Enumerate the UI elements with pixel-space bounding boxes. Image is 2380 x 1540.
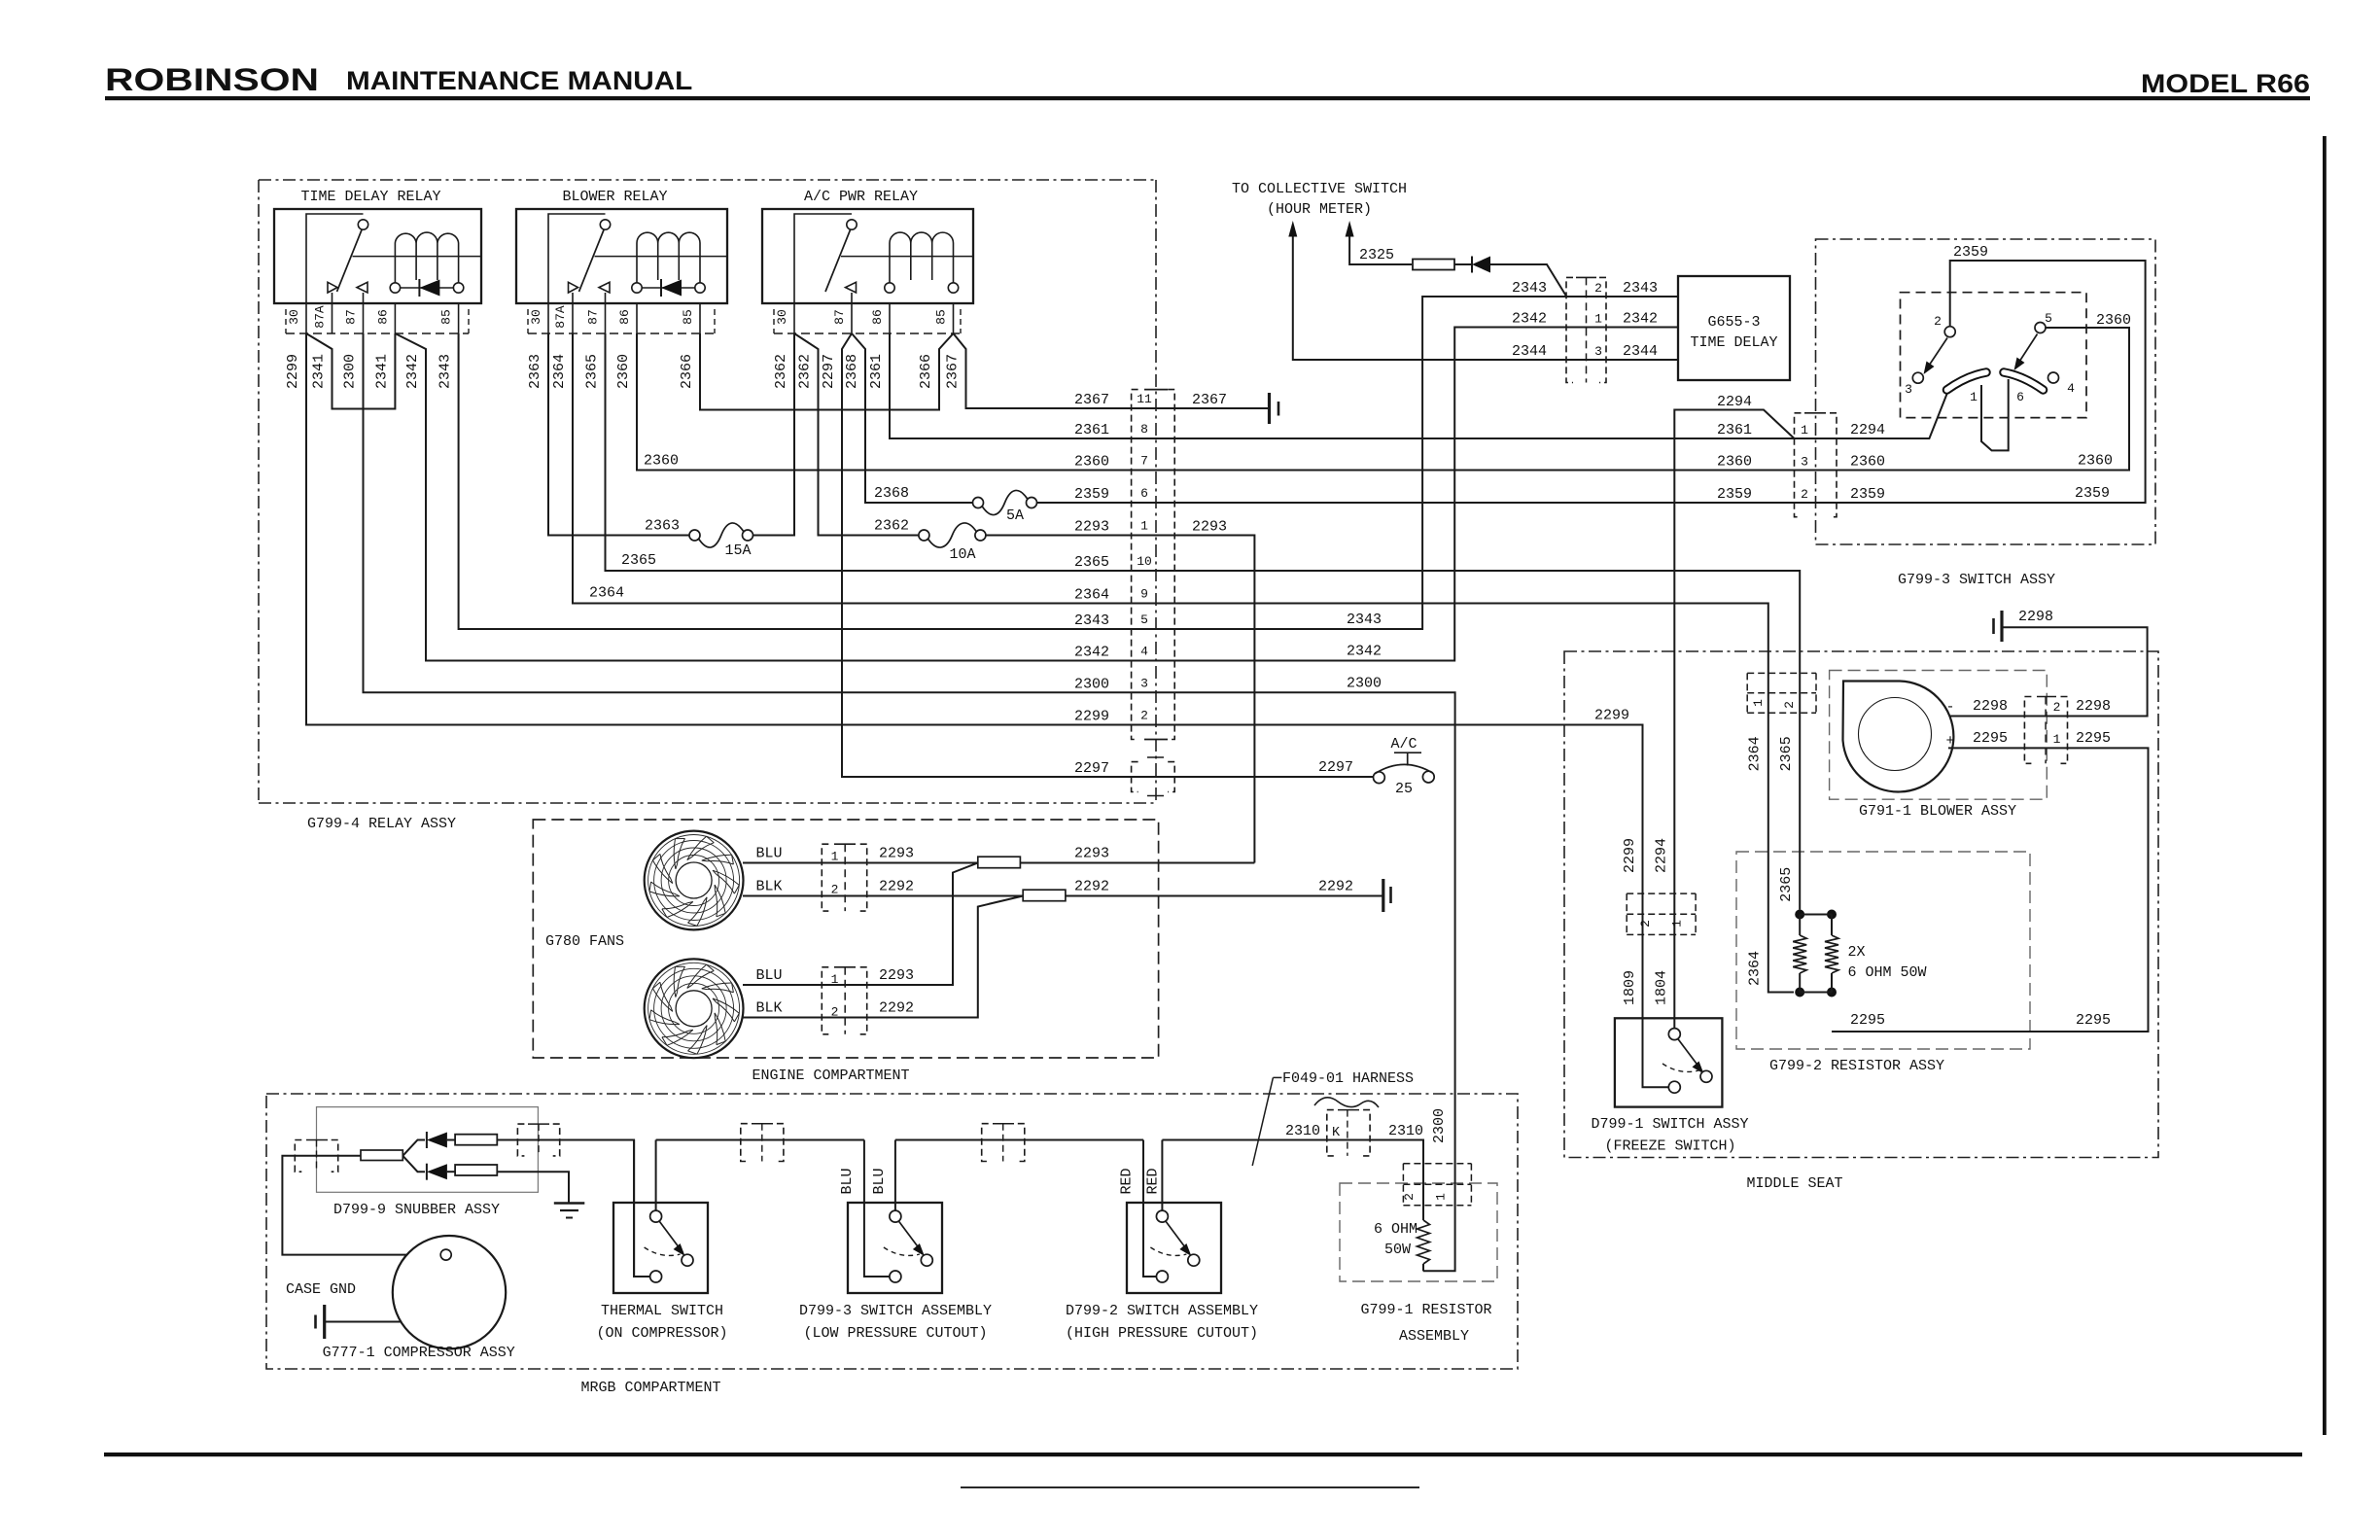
- svg-text:6 OHM 50W: 6 OHM 50W: [1848, 964, 1927, 981]
- svg-text:G799-2 RESISTOR ASSY: G799-2 RESISTOR ASSY: [1769, 1058, 1944, 1074]
- svg-text:2360: 2360: [1717, 454, 1752, 471]
- ground for wire 2292: [1382, 879, 1384, 912]
- svg-text:2292: 2292: [1318, 879, 1353, 895]
- middle seat connector on 2364/2365 (2 pin): [1747, 672, 1816, 674]
- svg-text:CASE GND: CASE GND: [286, 1281, 356, 1298]
- svg-text:3: 3: [1140, 676, 1148, 690]
- svg-text:MAINTENANCE MANUAL: MAINTENANCE MANUAL: [346, 66, 692, 95]
- svg-text:87: 87: [832, 309, 847, 325]
- svg-text:2365: 2365: [584, 354, 601, 389]
- relay 87 pin lead: [851, 293, 853, 303]
- relay coil terminal 85: [453, 283, 463, 293]
- freeze switch bottom terminal: [1668, 1081, 1680, 1093]
- svg-text:MRGB COMPARTMENT: MRGB COMPARTMENT: [580, 1380, 720, 1396]
- svg-text:2343: 2343: [1074, 612, 1109, 629]
- svg-text:TO COLLECTIVE SWITCH: TO COLLECTIVE SWITCH: [1232, 181, 1407, 197]
- G799-4 RELAY ASSY dashed box: [259, 180, 1156, 803]
- svg-text:2359: 2359: [1953, 244, 1988, 261]
- wire 2310 trunk: snubber to thermal switch: [497, 1140, 649, 1277]
- svg-text:2299: 2299: [1074, 709, 1109, 725]
- svg-text:ASSEMBLY: ASSEMBLY: [1399, 1328, 1469, 1345]
- svg-text:2310: 2310: [1388, 1123, 1423, 1139]
- relay pin stubs: [305, 303, 307, 333]
- svg-text:2342: 2342: [1074, 645, 1109, 661]
- svg-text:1809: 1809: [1622, 970, 1638, 1005]
- svg-text:G777-1 COMPRESSOR ASSY: G777-1 COMPRESSOR ASSY: [323, 1345, 515, 1361]
- svg-text:2293: 2293: [1074, 519, 1109, 536]
- relay connector dashed pin row: [286, 332, 469, 334]
- svg-text:2: 2: [1801, 487, 1808, 502]
- svg-text:2343: 2343: [1347, 612, 1382, 628]
- svg-text:25: 25: [1395, 781, 1413, 797]
- svg-text:TIME DELAY RELAY: TIME DELAY RELAY: [300, 189, 440, 205]
- thermal switch arm with arrow: [659, 1221, 681, 1250]
- D799-3 low pressure switch top terminal: [890, 1210, 901, 1222]
- svg-text:2294: 2294: [1717, 394, 1752, 410]
- svg-text:ROBINSON: ROBINSON: [105, 62, 319, 97]
- relay suppression diode: [642, 287, 695, 289]
- thermal switch dashed arc: [645, 1247, 681, 1255]
- svg-text:RED: RED: [1145, 1168, 1162, 1194]
- svg-text:2359: 2359: [2075, 485, 2110, 502]
- snubber top branch diode: [402, 1140, 425, 1156]
- wire 2294 (freeze switch to G799-3 pin1 to rotary contact 1): [1674, 393, 1947, 1029]
- svg-text:2: 2: [1782, 701, 1797, 709]
- svg-text:(FREEZE SWITCH): (FREEZE SWITCH): [1604, 1138, 1735, 1155]
- svg-text:1: 1: [1751, 699, 1766, 707]
- freeze switch top terminal: [1668, 1029, 1680, 1040]
- relay switch pivot: [847, 220, 857, 229]
- bottom rule: [104, 1452, 2302, 1456]
- svg-text:2293: 2293: [879, 846, 914, 862]
- svg-text:1: 1: [1801, 423, 1808, 437]
- svg-text:D799-9 SNUBBER ASSY: D799-9 SNUBBER ASSY: [333, 1202, 500, 1218]
- svg-text:2360: 2360: [615, 354, 632, 389]
- ENGINE COMPARTMENT dashed box: [533, 820, 1158, 1058]
- D799-3 low pressure switch box: [848, 1203, 942, 1293]
- relay box: BLOWER RELAY: [516, 209, 727, 303]
- relay 87 contact: [846, 282, 857, 293]
- svg-text:30: 30: [287, 309, 301, 325]
- blower motor symbol G791-1: [1843, 682, 1954, 792]
- relay pin-30 internal lead: [306, 214, 364, 303]
- svg-text:2: 2: [1594, 281, 1602, 296]
- svg-text:5: 5: [2045, 311, 2052, 326]
- wire 2359 (5A fuse to connector pin6 to G799-3 pin2): [1037, 261, 2146, 503]
- svg-text:2293: 2293: [1192, 519, 1227, 536]
- rotary switch link between contacts 1 and 6: [1981, 379, 2009, 450]
- snubber right connector: [517, 1124, 524, 1156]
- relay 87 contact: [357, 282, 367, 293]
- G791-1 BLOWER ASSY dashed box: [1830, 671, 2047, 800]
- svg-text:8: 8: [1140, 422, 1148, 437]
- svg-text:G791-1 BLOWER ASSY: G791-1 BLOWER ASSY: [1859, 803, 2016, 820]
- svg-text:9: 9: [1140, 587, 1148, 602]
- G799-2 RESISTOR ASSY dashed box: [1736, 852, 2030, 1049]
- svg-text:87A: 87A: [313, 305, 328, 329]
- relay 87 pin lead: [605, 293, 607, 303]
- fan symbol G780: [645, 831, 744, 930]
- circuit breaker A/C 25: [1374, 772, 1385, 784]
- central connector 2297 section: [1132, 762, 1138, 792]
- svg-text:2368: 2368: [844, 354, 860, 389]
- relay coil: [890, 232, 954, 283]
- svg-text:BLU: BLU: [755, 967, 782, 984]
- svg-text:A/C: A/C: [1390, 736, 1417, 752]
- svg-text:85: 85: [934, 309, 949, 325]
- svg-text:2295: 2295: [1973, 730, 2008, 747]
- relay coil terminal 86: [632, 283, 642, 293]
- wire 2325 to connector pin2: [1490, 264, 1566, 297]
- svg-text:2362: 2362: [773, 354, 789, 389]
- G799-3 connector (3 pin): [1795, 413, 1802, 517]
- rotary switch wiper arrow from pin 2 to pin 3: [1929, 338, 1947, 367]
- svg-text:2: 2: [831, 883, 839, 897]
- svg-text:2367: 2367: [1192, 392, 1227, 408]
- svg-text:2344: 2344: [1512, 343, 1547, 360]
- svg-text:2293: 2293: [1074, 846, 1109, 862]
- svg-text:85: 85: [439, 309, 454, 325]
- svg-text:(HOUR METER): (HOUR METER): [1267, 201, 1372, 218]
- relay switch arm: [337, 230, 363, 293]
- svg-text:2343: 2343: [437, 354, 454, 389]
- svg-text:5: 5: [1140, 612, 1148, 627]
- svg-text:2362: 2362: [797, 354, 814, 389]
- svg-text:2341: 2341: [311, 354, 328, 389]
- wire 2310 trunk: thermal to D799-3: [656, 1139, 864, 1141]
- svg-text:2363: 2363: [645, 518, 680, 535]
- D799-2 high pressure switch arm with arrow: [1166, 1221, 1187, 1250]
- svg-text:10A: 10A: [949, 546, 975, 563]
- svg-text:5A: 5A: [1006, 507, 1024, 524]
- svg-text:85: 85: [681, 309, 695, 325]
- svg-text:2299: 2299: [1622, 838, 1638, 873]
- svg-text:-: -: [1945, 699, 1954, 716]
- D799-3 low pressure switch top terminal riser: [894, 1140, 896, 1211]
- trunk connector between D799-3 and D799-2: [982, 1124, 989, 1162]
- svg-text:4: 4: [2067, 381, 2075, 396]
- fuse 5A: [982, 490, 1028, 514]
- rotary switch wiper arrow from pin 5 to pin 6: [2019, 334, 2038, 363]
- svg-text:1: 1: [1140, 519, 1148, 534]
- svg-text:11: 11: [1137, 392, 1152, 406]
- svg-text:2298: 2298: [2076, 698, 2111, 715]
- snubber top branch fuse: [455, 1135, 497, 1145]
- D799-3 low pressure switch left wire: [864, 1140, 890, 1277]
- svg-text:1: 1: [1594, 312, 1602, 327]
- D799-2 high pressure switch top terminal: [1156, 1210, 1168, 1222]
- wire 2361 (relay3 pin86 to connector pin8 to G799-3 pin1): [890, 333, 1795, 438]
- G799-1 resistor element 6 OHM 50W: [1417, 1220, 1430, 1264]
- rotary switch pin 5: [2035, 323, 2046, 333]
- relay connector dashed pin row: [774, 332, 961, 334]
- relay 87A pin lead: [572, 293, 574, 303]
- svg-text:87A: 87A: [553, 305, 568, 329]
- relay armature bar: [841, 256, 973, 258]
- svg-text:2359: 2359: [1850, 486, 1885, 503]
- snubber splice: [361, 1150, 402, 1161]
- wire 2298 (ground to blower minus): [1949, 627, 2148, 716]
- G799-3 SWITCH ASSY dashed box: [1816, 239, 2156, 544]
- blower connector (2 pin): [2024, 697, 2031, 764]
- wire 2310 trunk: D799-3 to D799-2: [895, 1139, 1143, 1141]
- svg-text:2299: 2299: [285, 354, 301, 389]
- relay armature bar: [353, 256, 482, 258]
- svg-text:1: 1: [2053, 732, 2061, 747]
- rotary switch pin 4: [2048, 372, 2059, 383]
- svg-text:D799-1 SWITCH ASSY: D799-1 SWITCH ASSY: [1591, 1116, 1748, 1133]
- svg-text:2365: 2365: [621, 552, 656, 569]
- fuse 15A: [699, 523, 745, 547]
- svg-text:1: 1: [831, 972, 839, 987]
- compressor terminal: [440, 1249, 451, 1260]
- svg-text:2343: 2343: [1623, 280, 1658, 297]
- relay coil terminal 86: [885, 283, 894, 293]
- svg-text:RED: RED: [1118, 1168, 1135, 1194]
- relay 87 contact: [599, 282, 610, 293]
- ground for wire 2367: [1268, 393, 1271, 424]
- D799-2 high pressure switch box: [1127, 1203, 1221, 1293]
- G655-3 TIME DELAY box: [1678, 276, 1790, 380]
- svg-text:MIDDLE SEAT: MIDDLE SEAT: [1746, 1175, 1842, 1192]
- rotary switch pin 3: [1912, 372, 1923, 383]
- wire 2364 (relay2 pin87A to connector pin9 to G799-2 resistor): [573, 333, 1794, 993]
- relay coil terminal 85: [695, 283, 705, 293]
- svg-text:2: 2: [1638, 920, 1653, 927]
- wire 2299 (relay1 pin30 to connector pin2 to freeze switch): [306, 333, 1669, 1087]
- svg-text:2342: 2342: [1623, 311, 1658, 328]
- svg-text:2292: 2292: [1074, 879, 1109, 895]
- svg-text:2360: 2360: [1850, 454, 1885, 471]
- fan2 connector (2 pin): [822, 967, 828, 1034]
- K connector on 2310: [1327, 1110, 1334, 1156]
- relay coil terminal 85: [948, 283, 958, 293]
- svg-text:2294: 2294: [1654, 838, 1670, 873]
- fan1 BLK wire 2292 to ground: [743, 895, 1382, 897]
- svg-text:2297: 2297: [1074, 760, 1109, 777]
- svg-text:G780 FANS: G780 FANS: [545, 933, 624, 950]
- header rule: [105, 96, 2310, 100]
- svg-text:2342: 2342: [404, 354, 421, 389]
- right page border: [2323, 136, 2327, 1435]
- svg-text:2361: 2361: [1074, 422, 1109, 438]
- wire 2362 (15A fuse to relay3 pin30): [753, 333, 795, 536]
- svg-text:2292: 2292: [879, 1000, 914, 1017]
- svg-text:1: 1: [1670, 920, 1685, 927]
- harness squiggle: [1314, 1098, 1379, 1107]
- relay coil: [395, 232, 458, 283]
- relay switch arm: [579, 230, 605, 293]
- svg-text:2292: 2292: [879, 879, 914, 895]
- svg-text:50W: 50W: [1384, 1242, 1411, 1258]
- G655-3 connector (3 pin): [1566, 277, 1573, 382]
- wire 2300 (relay1 pin87 to connector pin3 to G799-1 resistor): [364, 333, 1455, 1271]
- svg-text:BLOWER RELAY: BLOWER RELAY: [562, 189, 667, 205]
- svg-text:2359: 2359: [1717, 486, 1752, 503]
- svg-text:2363: 2363: [527, 354, 543, 389]
- D799-3 low pressure switch arm with arrow: [898, 1221, 920, 1250]
- earth ground at snubber: [554, 1202, 585, 1204]
- svg-text:4: 4: [1140, 645, 1148, 659]
- svg-text:6: 6: [1140, 486, 1148, 501]
- snubber left connector: [295, 1140, 301, 1172]
- D799-3 low pressure switch dashed arc: [884, 1247, 920, 1255]
- svg-text:2: 2: [2053, 700, 2061, 715]
- svg-text:2298: 2298: [2018, 609, 2053, 625]
- thermal switch left wire: [634, 1140, 650, 1277]
- relay 87A pin lead: [332, 293, 333, 303]
- svg-text:F049-01 HARNESS: F049-01 HARNESS: [1282, 1070, 1414, 1087]
- wire 2362 second (relay3 pin30 jog to 10A fuse): [794, 333, 919, 536]
- relay switch pivot: [600, 220, 610, 229]
- svg-text:2295: 2295: [2076, 1012, 2111, 1029]
- svg-text:86: 86: [375, 309, 390, 325]
- G799-1 RESISTOR ASSEMBLY dashed box: [1340, 1183, 1497, 1281]
- svg-text:THERMAL SWITCH: THERMAL SWITCH: [601, 1303, 723, 1319]
- svg-text:TIME DELAY: TIME DELAY: [1690, 334, 1777, 351]
- svg-text:2298: 2298: [1973, 698, 2008, 715]
- D799-3 low pressure switch bottom terminal: [890, 1271, 901, 1282]
- fan2 BLU wire 2293: [743, 863, 978, 986]
- svg-text:10: 10: [1137, 554, 1152, 569]
- snubber bottom branch to ground: [497, 1172, 569, 1203]
- svg-text:2360: 2360: [644, 453, 679, 470]
- svg-text:3: 3: [1905, 382, 1912, 397]
- thermal switch box: [613, 1203, 708, 1293]
- svg-text:(ON COMPRESSOR): (ON COMPRESSOR): [596, 1325, 727, 1342]
- G799-1 connector (2 pin): [1403, 1163, 1471, 1165]
- svg-text:(HIGH PRESSURE CUTOUT): (HIGH PRESSURE CUTOUT): [1066, 1325, 1258, 1342]
- svg-text:1804: 1804: [1654, 970, 1670, 1005]
- wire 2367 (relay3 pin85 to connector pin11 to ground): [954, 333, 1269, 408]
- case ground wire: [326, 1321, 402, 1323]
- svg-text:G799-4 RELAY ASSY: G799-4 RELAY ASSY: [307, 816, 456, 832]
- svg-text:6: 6: [2016, 390, 2024, 404]
- svg-text:2300: 2300: [1074, 676, 1109, 692]
- freeze switch arm with arrow: [1678, 1039, 1699, 1068]
- case ground symbol: [323, 1305, 326, 1339]
- resistor element left 6 OHM 50W: [1799, 915, 1801, 936]
- svg-text:G799-1 RESISTOR: G799-1 RESISTOR: [1360, 1302, 1491, 1318]
- rotary switch contact segment 6: [2004, 372, 2044, 390]
- svg-text:1: 1: [1970, 390, 1977, 404]
- thermal switch top terminal riser: [655, 1140, 657, 1211]
- thermal switch bottom terminal: [650, 1271, 662, 1282]
- svg-text:2368: 2368: [874, 485, 909, 502]
- svg-text:2365: 2365: [1778, 736, 1795, 771]
- fan2 BLK wire 2292: [743, 896, 1023, 1018]
- svg-text:2364: 2364: [551, 354, 568, 389]
- svg-text:D799-3 SWITCH ASSEMBLY: D799-3 SWITCH ASSEMBLY: [799, 1303, 992, 1319]
- wire 2360 (relay2 pin86 to connector pin7 to G799-3 pin5): [637, 328, 2129, 471]
- relay pin stubs: [547, 303, 549, 333]
- wire 2343 (relay1 pin85 to connector pin5 to G655-3 pin2): [459, 297, 1678, 629]
- svg-text:(LOW PRESSURE CUTOUT): (LOW PRESSURE CUTOUT): [803, 1325, 987, 1342]
- svg-text:2344: 2344: [1623, 343, 1658, 360]
- svg-text:MODEL R66: MODEL R66: [2141, 70, 2310, 99]
- svg-text:15A: 15A: [724, 542, 751, 559]
- svg-text:D799-2 SWITCH ASSEMBLY: D799-2 SWITCH ASSEMBLY: [1066, 1303, 1258, 1319]
- svg-text:30: 30: [529, 309, 543, 325]
- snubber bottom branch diode: [402, 1156, 425, 1172]
- ground for wire 2298: [2000, 611, 2003, 642]
- svg-text:2X: 2X: [1848, 944, 1866, 961]
- wire 2341 jumper (relay1 pin30 to pin86): [306, 333, 395, 409]
- wire 2297 (relay3 pin87 to connector to A/C breaker): [842, 333, 1374, 777]
- svg-text:K: K: [1332, 1126, 1341, 1140]
- svg-text:2361: 2361: [1717, 422, 1752, 438]
- svg-text:7: 7: [1140, 454, 1148, 469]
- relay pin stubs: [793, 303, 795, 333]
- thermal switch top terminal: [650, 1210, 662, 1222]
- fan1 connector (2 pin): [822, 844, 828, 911]
- svg-text:30: 30: [775, 309, 789, 325]
- relay 87A contact: [328, 282, 337, 293]
- svg-text:1: 1: [831, 850, 839, 864]
- relay 87 pin lead: [363, 293, 365, 303]
- G777-1 compressor circle: [393, 1236, 506, 1348]
- splice on 2293: [978, 857, 1021, 868]
- svg-text:2364: 2364: [1747, 736, 1764, 771]
- wire 2368 (relay3 pin87 to 5A fuse): [852, 333, 973, 503]
- svg-text:2367: 2367: [1074, 392, 1109, 408]
- fan symbol G780: [645, 959, 744, 1058]
- svg-text:3: 3: [1594, 344, 1602, 359]
- D799-1 freeze switch box: [1615, 1018, 1723, 1106]
- wire 2366 (relay2 pin85 to relay3 pin85): [700, 333, 954, 410]
- relay box: TIME DELAY RELAY: [274, 209, 481, 303]
- bottom center line: [961, 1487, 1419, 1488]
- wire 2293 (10A fuse to connector pin1 to fans): [986, 536, 1255, 863]
- relay switch arm: [825, 230, 851, 293]
- svg-text:2367: 2367: [945, 354, 962, 389]
- svg-text:BLU: BLU: [839, 1168, 856, 1194]
- relay pin-30 internal lead: [794, 214, 852, 303]
- svg-text:2299: 2299: [1594, 708, 1629, 724]
- trunk connector between thermal and D799-3: [741, 1124, 748, 1162]
- svg-text:2341: 2341: [373, 354, 390, 389]
- svg-text:86: 86: [870, 309, 885, 325]
- fan1 BLU wire 2293: [743, 862, 1254, 864]
- wire 2310 trunk: D799-2 to G799-1 resistor pin2: [1162, 1140, 1423, 1221]
- svg-text:87: 87: [344, 309, 359, 325]
- svg-text:2359: 2359: [1074, 486, 1109, 503]
- svg-text:2: 2: [1402, 1193, 1417, 1201]
- wire 2342 (relay1 pin86 to connector pin4 to G655-3 pin1): [395, 328, 1678, 661]
- MRGB COMPARTMENT dashed box: [266, 1094, 1518, 1369]
- svg-text:BLK: BLK: [755, 879, 782, 895]
- svg-text:2364: 2364: [589, 585, 624, 602]
- relay switch pivot: [358, 220, 367, 229]
- D799-2 high pressure switch dashed arc: [1150, 1247, 1186, 1255]
- svg-text:2342: 2342: [1512, 311, 1547, 328]
- relay suppression diode: [401, 287, 454, 289]
- D799-2 high pressure switch bottom terminal: [1156, 1271, 1168, 1282]
- svg-text:2342: 2342: [1347, 644, 1382, 660]
- svg-text:2300: 2300: [1431, 1108, 1448, 1143]
- diode on wire 2325: [1454, 263, 1472, 265]
- svg-text:2295: 2295: [1850, 1012, 1885, 1029]
- svg-text:2294: 2294: [1850, 422, 1885, 438]
- svg-text:BLU: BLU: [755, 846, 782, 862]
- svg-text:2362: 2362: [874, 518, 909, 535]
- page header: MODEL R66: [2141, 70, 2310, 99]
- svg-text:3: 3: [1801, 455, 1808, 470]
- svg-text:2360: 2360: [2078, 453, 2113, 470]
- svg-text:2297: 2297: [1318, 759, 1353, 776]
- svg-text:2365: 2365: [1074, 554, 1109, 571]
- relay armature bar: [595, 256, 728, 258]
